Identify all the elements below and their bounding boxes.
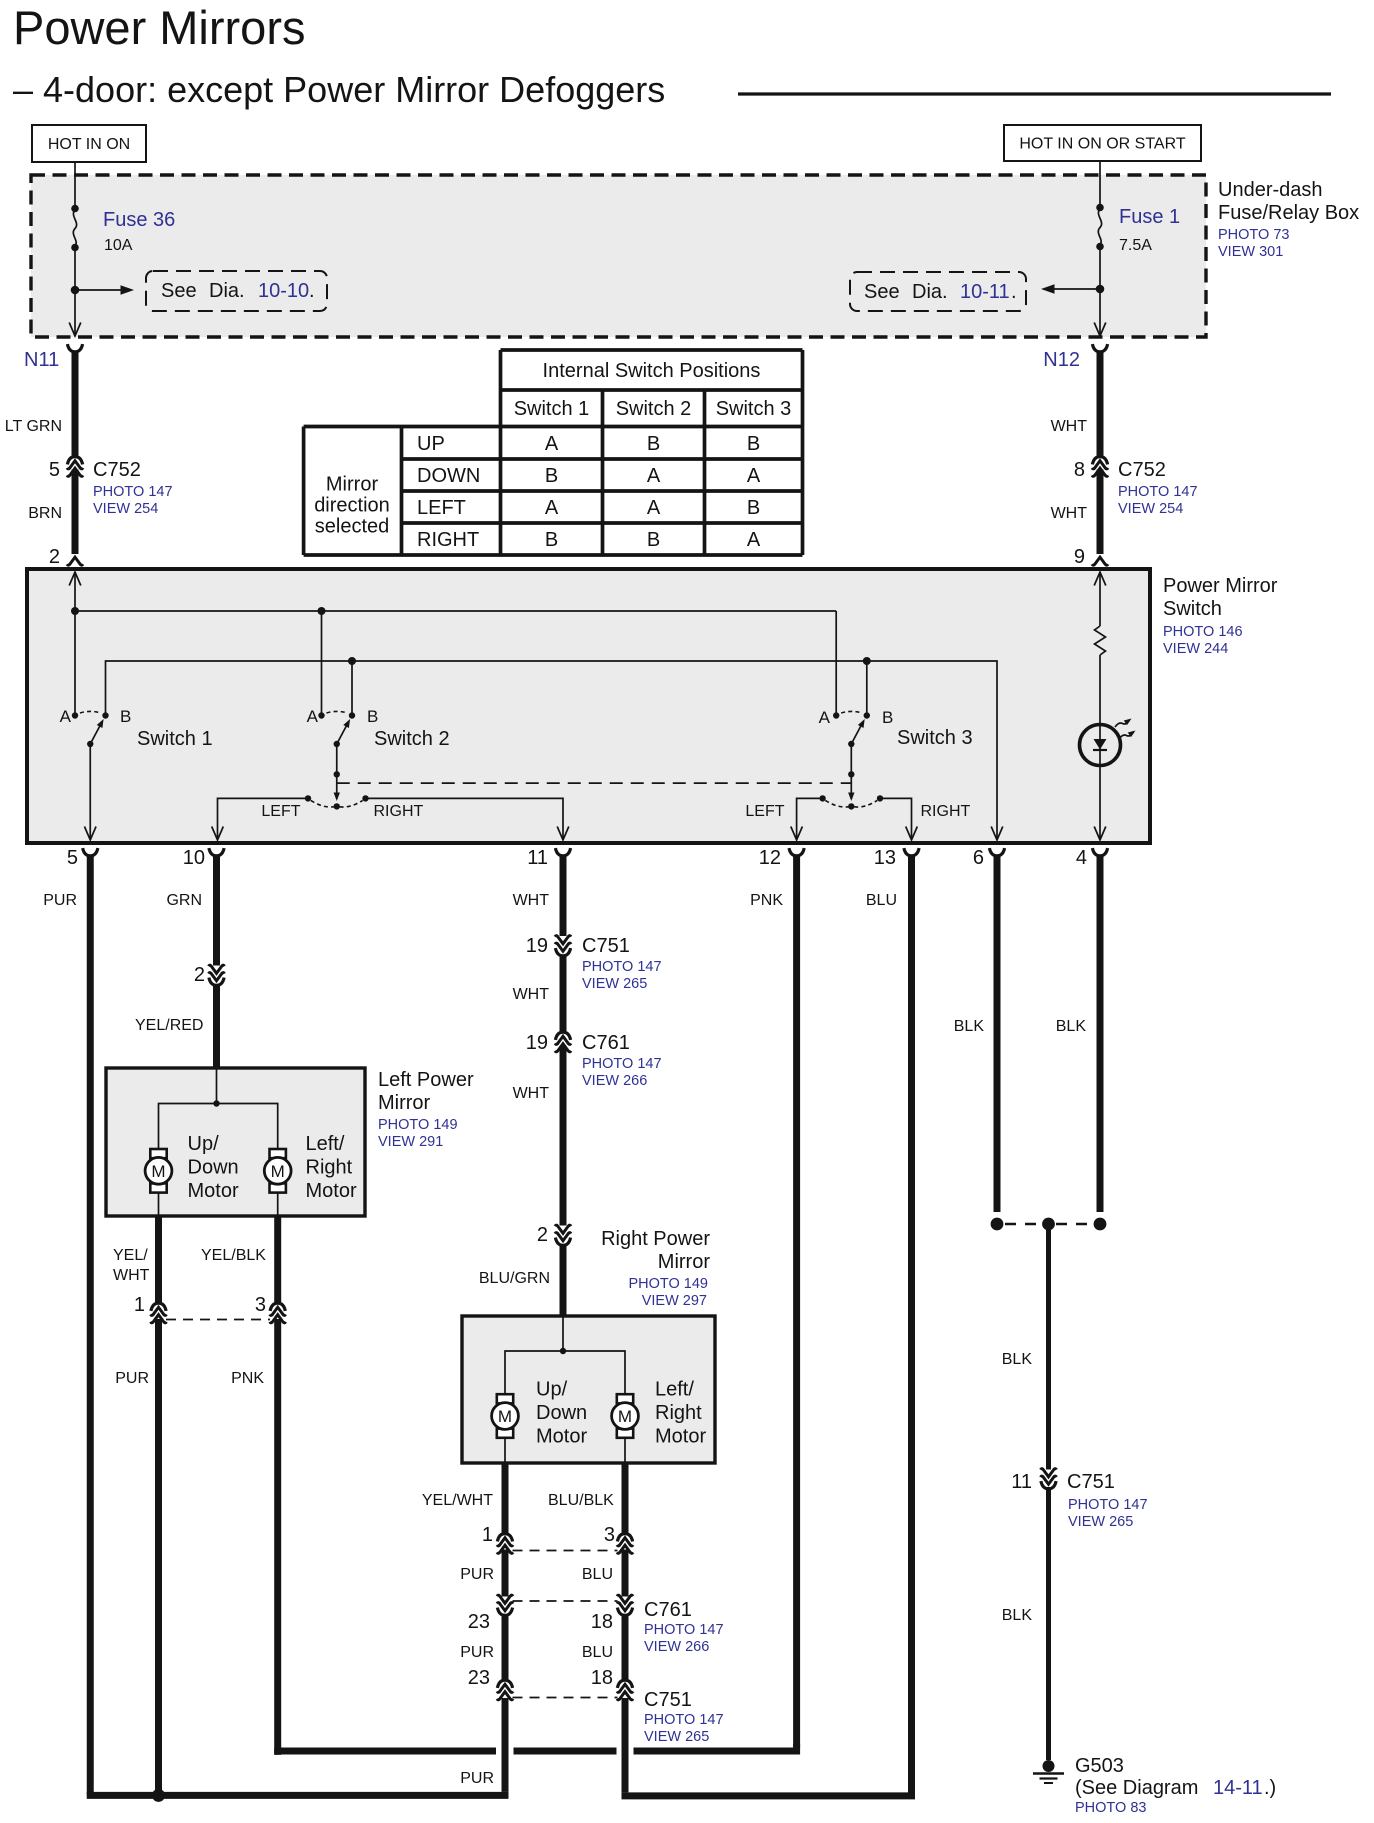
See Dia 10-11 box [850,272,1026,311]
motor M left/right (right mirror) [612,1394,639,1438]
svg-text:YEL/WHT: YEL/WHT [422,1492,493,1509]
switch 1 [60,707,213,840]
svg-text:C752: C752 [93,459,141,481]
svg-text:A: A [60,707,72,726]
svg-text:Motor: Motor [536,1426,587,1448]
pin 5 connector [83,848,98,856]
connector N11 [67,344,82,352]
svg-text:13: 13 [874,847,896,869]
svg-text:C761: C761 [582,1032,630,1054]
svg-text:BLK: BLK [1002,1351,1033,1368]
svg-text:A: A [647,497,661,519]
svg-text:Left/: Left/ [655,1379,694,1401]
svg-text:Up/: Up/ [188,1133,220,1155]
svg-text:Left/: Left/ [306,1133,345,1155]
svg-text:Mirror: Mirror [378,1092,431,1114]
wire BLU to C751 [622,1615,629,1681]
svg-text:A: A [307,707,319,726]
svg-text:PHOTO 146: PHOTO 146 [1163,624,1243,640]
HOT IN ON OR START box [1004,125,1201,161]
svg-text:1: 1 [482,1524,493,1546]
link to rocker [850,744,852,799]
svg-text:Down: Down [188,1157,239,1179]
svg-text:VIEW 265: VIEW 265 [582,976,647,992]
svg-text:B: B [747,497,760,519]
svg-text:N11: N11 [24,349,59,371]
svg-text:PHOTO 147: PHOTO 147 [1118,484,1198,500]
svg-text:LEFT: LEFT [745,803,784,820]
pin 6 exit arrow [991,827,1003,841]
svg-text:PUR: PUR [115,1370,149,1387]
wire PUR down to bus [502,1698,509,1792]
svg-text:PHOTO 147: PHOTO 147 [93,484,173,500]
node: branch to See Dia 10-11 [1096,285,1105,294]
svg-text:Switch 3: Switch 3 [897,727,973,749]
svg-text:8: 8 [1074,459,1085,481]
pin 11 connector [555,848,570,856]
wire pin5 PUR down to bus [87,855,94,1795]
svg-text:GRN: GRN [166,892,202,909]
svg-text:19: 19 [526,1032,548,1054]
connector dashed pair line [166,1319,270,1321]
internal feed wire [562,1316,564,1351]
ground G503 [1043,1760,1055,1772]
internal feed wire [216,1068,218,1104]
mechanical link switch2-switch3 [337,782,852,784]
pin 2 entry arrow [69,572,81,586]
svg-text:18: 18 [591,1667,613,1689]
motor M left/right (left mirror) [264,1149,291,1193]
svg-text:Switch 2: Switch 2 [374,728,450,750]
svg-text:BLU/GRN: BLU/GRN [479,1270,550,1287]
connector C761 pin 18 [617,1595,633,1615]
svg-text:See: See [864,281,900,303]
power mirror switch box [27,569,1150,843]
wire N12 to C752 (WHT) [1097,351,1104,457]
svg-text:YEL/: YEL/ [113,1247,148,1264]
svg-text:VIEW 297: VIEW 297 [642,1293,707,1309]
svg-text:10-11: 10-11 [960,281,1010,303]
wire PUR to C761 [502,1550,509,1597]
connector N12 [1092,344,1107,352]
connector pin 3 (right mirror) [617,1534,633,1554]
svg-text:PUR: PUR [460,1566,494,1583]
svg-text:WHT: WHT [113,1267,150,1284]
svg-text:6: 6 [973,847,984,869]
svg-text:VIEW 254: VIEW 254 [1118,501,1183,517]
node [213,1100,219,1106]
wire PUR to C751 [502,1615,509,1681]
lever [337,723,348,744]
svg-text:C751: C751 [644,1689,692,1711]
wire pin13 BLU down to bus [908,855,915,1792]
svg-text:LT GRN: LT GRN [5,418,62,435]
under-dash fuse/relay box [31,175,1206,337]
motor leads to box edge [504,1438,506,1463]
wire YEL/WHT below left mirror [155,1216,162,1304]
See Dia 10-10 box [146,271,327,311]
motor M up/down (left mirror) [145,1149,172,1193]
svg-text:Switch 1: Switch 1 [514,398,590,420]
resistor [1099,572,1101,626]
PNK bus (upper) [281,1748,496,1755]
motor leads to box edge [158,1193,160,1216]
wire LEFT contact to pin 12 [797,798,820,840]
svg-text:A: A [545,497,559,519]
svg-text:Power Mirrors: Power Mirrors [13,1,305,54]
svg-text:19: 19 [526,935,548,957]
wire RIGHT contact to pin 13 [883,798,912,840]
wire rail A to switch3 A [835,611,837,716]
connector C752 pin 5 [67,457,83,477]
pin 9 entry chevron [1092,557,1108,565]
wire below fuse 1 [1099,247,1101,337]
dashed pair line C751 [513,1697,618,1699]
svg-text:10A: 10A [104,237,133,254]
svg-text:direction: direction [314,495,390,517]
svg-text:N12: N12 [1043,349,1080,371]
pin 9 entry arrow [1094,572,1106,586]
svg-text:VIEW 266: VIEW 266 [582,1073,647,1089]
wire N11 to C752 (LT GRN) [72,351,79,457]
svg-text:Left Power: Left Power [378,1069,474,1091]
pin 10 connector [209,848,224,856]
svg-text:PNK: PNK [231,1370,264,1387]
svg-text:23: 23 [468,1611,490,1633]
svg-text:WHT: WHT [513,1085,550,1102]
svg-text:C761: C761 [644,1599,692,1621]
svg-text:DOWN: DOWN [417,465,480,487]
svg-text:RIGHT: RIGHT [921,803,971,820]
wire rail B to switch2 B [351,661,353,716]
svg-text:LEFT: LEFT [261,803,300,820]
svg-text:C752: C752 [1118,459,1166,481]
svg-text:VIEW 291: VIEW 291 [378,1134,443,1150]
BLU bus (lower right) [625,1792,912,1796]
svg-text:WHT: WHT [513,892,550,909]
svg-text:PHOTO 147: PHOTO 147 [582,959,662,975]
wire PNK down then right (upper bus) [274,1319,281,1755]
pin 2 entry chevron [67,557,83,565]
wire C752 to switch (WHT) pin 9 [1097,470,1104,555]
svg-text:WHT: WHT [1051,418,1088,435]
left/right rocker [848,803,854,809]
wire YEL/BLK below left mirror [274,1216,281,1304]
svg-text:2: 2 [194,964,205,986]
LED light arrows [1115,720,1130,727]
svg-text:VIEW 265: VIEW 265 [644,1729,709,1745]
arrow into N11 [69,323,81,337]
svg-text:B: B [882,708,893,727]
wire RIGHT contact to pin 11 [369,798,564,840]
wire below fuse 36 [74,248,76,337]
wire YEL/WHT below right mirror [502,1463,509,1534]
connector C751 pin 19 [555,936,571,956]
svg-text:BLU: BLU [582,1566,613,1583]
pin 12 connector [789,848,804,856]
svg-text:Internal Switch Positions: Internal Switch Positions [543,360,761,382]
fuse 36 [71,205,79,213]
wire pin10 GRN [213,855,220,966]
svg-text:A: A [747,529,761,551]
svg-text:VIEW 254: VIEW 254 [93,501,158,517]
wire WHT between C751 and C761 [560,955,567,1032]
svg-text:– 4-door: except Power Mirror: – 4-door: except Power Mirror Defoggers [13,69,665,110]
connector pin 3 [270,1303,286,1323]
fuse 1 [1096,204,1104,212]
svg-text:4: 4 [1076,847,1087,869]
svg-text:Power Mirror: Power Mirror [1163,575,1278,597]
HOT IN ON box [32,125,146,162]
svg-text:G503: G503 [1075,1755,1124,1777]
svg-text:Down: Down [536,1402,587,1424]
svg-text:PHOTO 147: PHOTO 147 [644,1622,724,1638]
svg-text:BLK: BLK [1002,1607,1033,1624]
svg-text:11: 11 [1011,1471,1032,1493]
svg-text:UP: UP [417,433,445,455]
LED indicator [1080,725,1121,766]
svg-text:2: 2 [537,1224,548,1246]
svg-text:B: B [647,529,660,551]
wire BLU/GRN into right mirror [560,1245,567,1317]
svg-text:WHT: WHT [1051,505,1088,522]
svg-text:1: 1 [134,1294,145,1316]
svg-text:5: 5 [49,459,60,481]
svg-text:See: See [161,280,197,302]
svg-text:3: 3 [255,1294,266,1316]
svg-text:Fuse 1: Fuse 1 [1119,206,1180,228]
svg-text:9: 9 [1074,546,1085,568]
svg-text:3: 3 [604,1524,615,1546]
link to rocker [336,744,338,799]
svg-text:PNK: PNK [750,892,783,909]
connector C751 pin 18 [617,1680,633,1700]
wire: HOT IN ON OR START feed [1099,161,1101,208]
svg-text:Right: Right [306,1157,353,1179]
svg-text:A: A [819,708,831,727]
connector C751 pin 11 [1041,1469,1057,1489]
wire pin11 WHT [560,855,567,936]
svg-text:Right: Right [655,1402,702,1424]
dashed pair line [513,1550,618,1552]
wire YEL/RED to left mirror [213,985,220,1069]
svg-text:YEL/BLK: YEL/BLK [201,1247,266,1264]
splice dots BLK [991,1218,1004,1231]
svg-text:A: A [647,465,661,487]
svg-text:Right Power: Right Power [601,1228,710,1250]
left power mirror box [106,1068,365,1216]
wire rail B to switch3 B [866,661,868,716]
svg-text:5: 5 [67,847,78,869]
svg-text:Fuse/Relay Box: Fuse/Relay Box [1218,202,1359,224]
svg-text:VIEW 266: VIEW 266 [644,1639,709,1655]
svg-text:10: 10 [183,847,205,869]
svg-text:10-10: 10-10 [258,280,309,302]
connector C752 pin 8 [1092,457,1108,477]
rail B (node) [106,661,998,840]
svg-text:Mirror: Mirror [658,1251,711,1273]
svg-text:BLK: BLK [954,1018,985,1035]
wire pin12 PNK down to bus [793,855,800,1748]
connector C751 pin 23 [497,1680,513,1700]
svg-text:A: A [747,465,761,487]
splice dashed links [1005,1223,1041,1226]
svg-text:2: 2 [49,546,60,568]
node PUR/mirror1 [152,1789,165,1802]
svg-text:12: 12 [759,847,781,869]
svg-text:VIEW 244: VIEW 244 [1163,641,1228,657]
svg-text:C751: C751 [582,935,630,957]
svg-text:selected: selected [315,516,390,538]
lever [851,723,862,744]
svg-text:(See Diagram: (See Diagram [1075,1777,1198,1799]
svg-text:Switch: Switch [1163,598,1222,620]
svg-text:Motor: Motor [655,1426,706,1448]
wire lever to pin 5 [89,744,91,840]
svg-text:YEL/RED: YEL/RED [135,1017,203,1034]
rail A (node) [75,610,836,612]
svg-text:PHOTO 147: PHOTO 147 [1068,1497,1148,1513]
svg-text:BLU/BLK: BLU/BLK [548,1492,614,1509]
svg-text:23: 23 [468,1667,490,1689]
dashed pair line C761 [513,1600,618,1602]
svg-text:B: B [367,707,378,726]
wire BLU to C761 [622,1550,629,1597]
in-line connector 2 (GRN/YEL-RED) [209,965,225,985]
svg-text:7.5A: 7.5A [1119,237,1152,254]
svg-text:VIEW 301: VIEW 301 [1218,244,1283,260]
svg-text:B: B [120,707,131,726]
svg-text:BLU: BLU [866,892,897,909]
svg-text:18: 18 [591,1611,613,1633]
svg-text:PUR: PUR [43,892,77,909]
svg-text:PHOTO 147: PHOTO 147 [644,1712,724,1728]
internal switch positions table [501,348,803,352]
svg-text:PHOTO 83: PHOTO 83 [1075,1800,1146,1816]
svg-text:BRN: BRN [28,505,62,522]
svg-text:PHOTO 73: PHOTO 73 [1218,227,1289,243]
motor M up/down (right mirror) [492,1394,519,1438]
pin 13 connector [904,848,919,856]
svg-text:.: . [309,280,315,302]
svg-text:11: 11 [527,847,548,869]
svg-text:Mirror: Mirror [326,474,379,496]
svg-text:PUR: PUR [460,1644,494,1661]
svg-text:Dia.: Dia. [209,280,245,302]
left/right rocker [334,803,340,809]
wire PUR down to bus (with junction) [155,1319,162,1795]
wire BLU/BLK below right mirror [622,1463,629,1534]
PUR bus (lower left) [90,1792,505,1796]
switch 2 [212,707,569,840]
wire: HOT IN ON feed [74,162,76,208]
connector C761 pin 19 [555,1032,571,1052]
svg-text:B: B [545,465,558,487]
svg-text:RIGHT: RIGHT [374,803,424,820]
svg-text:Fuse 36: Fuse 36 [103,209,175,231]
svg-text:PHOTO 149: PHOTO 149 [378,1117,458,1133]
in-line connector 2 (right mirror) [555,1225,571,1245]
wire LED to pin 4 [1099,766,1101,841]
svg-text:Switch 1: Switch 1 [137,728,213,750]
wire WHT to right mirror connector [560,1046,567,1226]
svg-text:Motor: Motor [306,1180,357,1202]
svg-text:B: B [647,433,660,455]
wire BLK splice to C751 [1046,1230,1051,1470]
wire BLU down to bus [622,1698,629,1792]
svg-text:.: . [1011,281,1017,303]
svg-text:B: B [545,529,558,551]
svg-text:Dia.: Dia. [912,281,948,303]
connector pin 1 [151,1303,167,1323]
svg-text:Up/: Up/ [536,1379,568,1401]
right power mirror box [462,1316,715,1463]
lever [90,723,101,744]
svg-text:BLK: BLK [1056,1018,1087,1035]
pin 6 connector [989,848,1004,856]
connector pin 1 (right mirror) [497,1534,513,1554]
svg-text:Switch 2: Switch 2 [616,398,692,420]
pin 4 connector [1092,848,1107,856]
svg-text:HOT IN ON OR START: HOT IN ON OR START [1019,136,1185,153]
svg-text:PHOTO 149: PHOTO 149 [628,1276,708,1292]
svg-text:14-11: 14-11 [1213,1777,1263,1799]
svg-text:PUR: PUR [460,1770,494,1787]
svg-text:PHOTO 147: PHOTO 147 [582,1056,662,1072]
svg-text:Switch 3: Switch 3 [716,398,792,420]
node [560,1348,566,1354]
svg-text:B: B [747,433,760,455]
svg-text:HOT IN ON: HOT IN ON [48,136,130,153]
svg-text:LEFT: LEFT [417,497,466,519]
wire LEFT contact to pin 10 [218,798,306,840]
node: branch to See Dia 10-10 [71,286,80,295]
wire pin4 BLK [1097,855,1104,1212]
wire pin2 down to switch1 A [74,572,76,716]
wire rail A to switch2 A [321,611,323,716]
svg-text:VIEW 265: VIEW 265 [1068,1514,1133,1530]
svg-text:Motor: Motor [188,1180,239,1202]
svg-text:WHT: WHT [513,986,550,1003]
wire pin6 BLK [994,855,1001,1212]
wire BLK to ground [1046,1487,1051,1760]
switch 3 [745,708,972,840]
wire C752 to switch (BRN) pin 2 [72,470,79,555]
connector C761 pin 23 [497,1595,513,1615]
svg-text:Under-dash: Under-dash [1218,179,1323,201]
arrow into N12 [1094,323,1106,337]
svg-text:C751: C751 [1067,1471,1115,1493]
svg-text:BLU: BLU [582,1644,613,1661]
svg-text:.): .) [1264,1777,1276,1799]
svg-text:A: A [545,433,559,455]
svg-text:RIGHT: RIGHT [417,529,479,551]
